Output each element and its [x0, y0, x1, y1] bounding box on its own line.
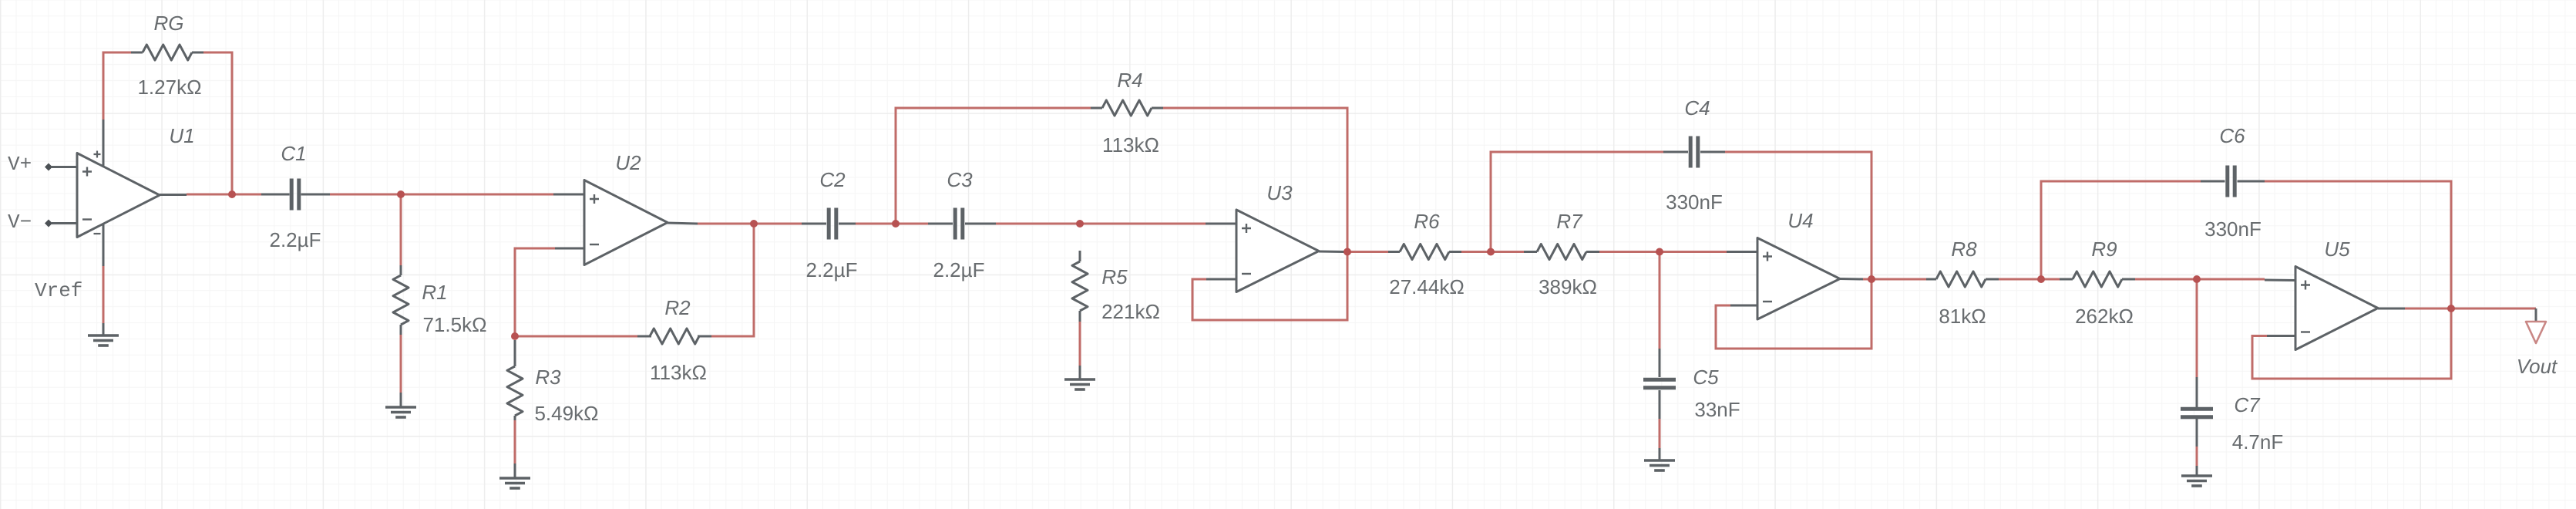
svg-text:330nF: 330nF	[2204, 217, 2262, 241]
svg-text:81kΩ: 81kΩ	[1939, 305, 1986, 328]
svg-text:V−: V−	[8, 211, 32, 234]
svg-text:R4: R4	[1117, 69, 1142, 92]
svg-text:389kΩ: 389kΩ	[1539, 275, 1597, 298]
svg-text:U3: U3	[1266, 181, 1293, 204]
svg-text:2.2µF: 2.2µF	[805, 258, 857, 281]
svg-text:113kΩ: 113kΩ	[650, 361, 707, 384]
svg-text:R2: R2	[664, 296, 691, 319]
svg-text:U4: U4	[1787, 209, 1813, 232]
svg-text:27.44kΩ: 27.44kΩ	[1389, 275, 1465, 298]
svg-text:C2: C2	[819, 168, 846, 191]
svg-text:1.27kΩ: 1.27kΩ	[137, 76, 201, 99]
svg-text:2.2µF: 2.2µF	[933, 258, 984, 281]
svg-text:U2: U2	[615, 151, 641, 174]
svg-text:V+: V+	[8, 153, 32, 176]
svg-text:RG: RG	[154, 12, 184, 35]
svg-text:71.5kΩ: 71.5kΩ	[422, 313, 486, 336]
svg-text:330nF: 330nF	[1666, 190, 1723, 214]
svg-text:113kΩ: 113kΩ	[1102, 133, 1159, 157]
svg-text:221kΩ: 221kΩ	[1101, 300, 1160, 323]
svg-text:C7: C7	[2234, 393, 2261, 416]
svg-text:C3: C3	[947, 168, 973, 191]
svg-text:R3: R3	[535, 366, 561, 389]
svg-text:2.2µF: 2.2µF	[269, 228, 321, 251]
svg-text:262kΩ: 262kΩ	[2075, 305, 2134, 328]
svg-text:R9: R9	[2091, 238, 2117, 261]
svg-text:C6: C6	[2219, 124, 2245, 147]
svg-text:R8: R8	[1951, 238, 1977, 261]
svg-text:Vref: Vref	[35, 279, 82, 302]
svg-text:33nF: 33nF	[1694, 398, 1740, 421]
svg-text:R6: R6	[1414, 210, 1440, 233]
svg-text:C4: C4	[1684, 96, 1710, 120]
svg-text:Vout: Vout	[2517, 355, 2558, 378]
svg-text:R7: R7	[1556, 210, 1583, 233]
svg-text:U5: U5	[2324, 238, 2350, 261]
svg-text:5.49kΩ: 5.49kΩ	[534, 402, 598, 425]
svg-text:R5: R5	[1101, 265, 1128, 288]
svg-text:4.7nF: 4.7nF	[2232, 430, 2284, 453]
svg-text:C5: C5	[1693, 366, 1719, 389]
svg-text:C1: C1	[281, 142, 306, 165]
svg-text:U1: U1	[169, 124, 194, 147]
svg-text:R1: R1	[422, 281, 447, 304]
